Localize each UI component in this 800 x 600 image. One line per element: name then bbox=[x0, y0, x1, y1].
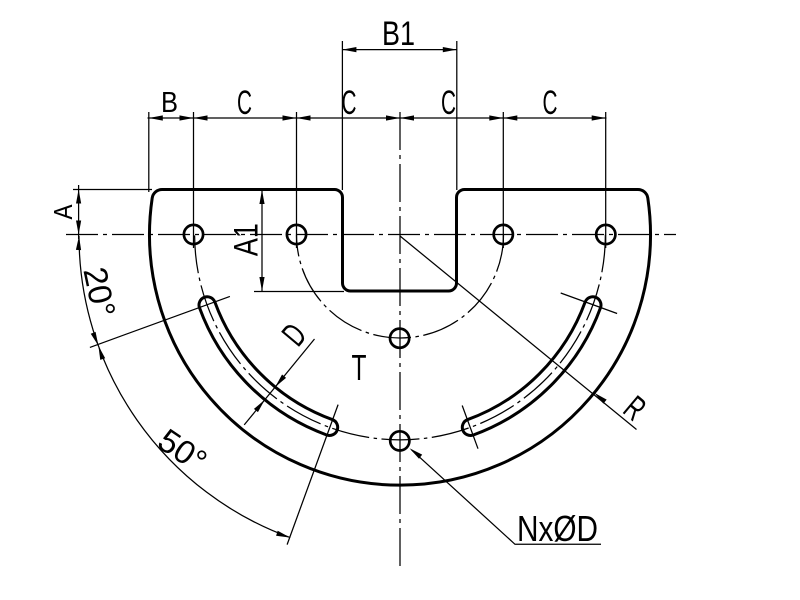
hole H6 (outer bolt circle bottom) bbox=[390, 431, 409, 450]
chain arrowheads bbox=[149, 115, 606, 120]
50deg arc arrowheads bbox=[96, 345, 291, 540]
horizontal centerline bbox=[66, 234, 676, 236]
A1 dimension line bbox=[261, 190, 263, 292]
B1 arrowheads bbox=[342, 47, 456, 52]
svg-text:A: A bbox=[50, 205, 78, 220]
D dimension line bbox=[244, 339, 314, 425]
extension line through hole H3 bbox=[502, 112, 504, 248]
radial extension line at 70deg (left slot lower end) bbox=[287, 405, 338, 545]
inner bolt circle centerline arc bbox=[297, 235, 504, 339]
extension line through hole H2 bbox=[296, 112, 298, 248]
hole H1 (outer bolt circle left) bbox=[184, 225, 203, 244]
svg-text:T: T bbox=[352, 347, 367, 388]
svg-text:NxØD: NxØD bbox=[517, 508, 598, 549]
arc slot right bbox=[462, 297, 601, 436]
20deg arc arrowheads bbox=[76, 236, 101, 347]
A extension line (top edge) bbox=[73, 189, 152, 191]
svg-text:C: C bbox=[441, 84, 456, 122]
R dimension line bbox=[400, 236, 637, 430]
B1 dimension line bbox=[342, 49, 456, 51]
vertical centerline bbox=[399, 112, 401, 566]
svg-text:B1: B1 bbox=[382, 15, 415, 53]
extension line at plate left edge bbox=[148, 112, 150, 192]
angular dimension arc bbox=[79, 236, 290, 538]
hole H5 (inner bolt circle bottom) bbox=[390, 329, 409, 348]
hole H4 (outer bolt circle right) bbox=[596, 225, 615, 244]
extension line through hole H1 bbox=[193, 112, 195, 248]
svg-text:A1: A1 bbox=[227, 223, 265, 256]
D arrowheads bbox=[254, 375, 286, 413]
svg-text:C: C bbox=[543, 84, 558, 122]
hole H2 (inner bolt circle left) bbox=[287, 225, 306, 244]
A1 arrowheads bbox=[259, 190, 264, 291]
B1 extension line right bbox=[456, 41, 458, 190]
svg-text:C: C bbox=[342, 84, 357, 122]
radial tick at right slot lower end bbox=[462, 406, 478, 449]
svg-text:B: B bbox=[161, 87, 178, 119]
A1 extension line (notch bottom) bbox=[254, 291, 344, 293]
plate outline bbox=[149, 189, 650, 485]
extension line through hole H4 bbox=[605, 112, 607, 248]
radial tick at right slot upper end bbox=[561, 293, 617, 314]
NxOD leader arrowhead bbox=[408, 446, 422, 459]
NxOD leader line bbox=[412, 450, 602, 545]
arc slot left bbox=[199, 297, 338, 436]
radial extension line at 20deg (slot upper end) bbox=[90, 296, 230, 347]
dimension chain line bbox=[148, 117, 607, 119]
A arrowheads bbox=[76, 190, 81, 235]
R arrowhead bbox=[593, 391, 607, 404]
A dimension line bbox=[78, 185, 80, 239]
B1 extension line left bbox=[341, 41, 343, 190]
svg-text:C: C bbox=[237, 84, 252, 122]
hole H3 (inner bolt circle right) bbox=[494, 225, 513, 244]
outer bolt circle / slot centerline arc bbox=[195, 235, 606, 440]
